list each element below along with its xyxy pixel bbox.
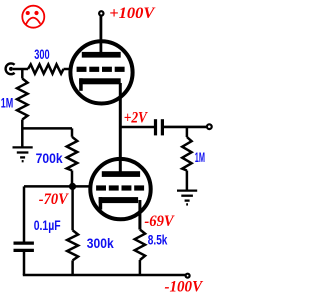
svg-text:0.1µF: 0.1µF bbox=[34, 217, 61, 233]
svg-text:-100V: -100V bbox=[165, 279, 204, 296]
svg-text:+100V: +100V bbox=[109, 5, 155, 22]
svg-text:300k: 300k bbox=[87, 235, 114, 251]
svg-text:8.5k: 8.5k bbox=[148, 232, 168, 248]
svg-text:300: 300 bbox=[34, 46, 50, 62]
svg-text:1M: 1M bbox=[1, 95, 14, 111]
svg-text:1M: 1M bbox=[195, 149, 205, 165]
svg-text:+2V: +2V bbox=[124, 109, 148, 126]
svg-text:-70V: -70V bbox=[39, 191, 69, 208]
svg-text:-69V: -69V bbox=[144, 213, 175, 230]
svg-text:700k: 700k bbox=[36, 150, 63, 166]
